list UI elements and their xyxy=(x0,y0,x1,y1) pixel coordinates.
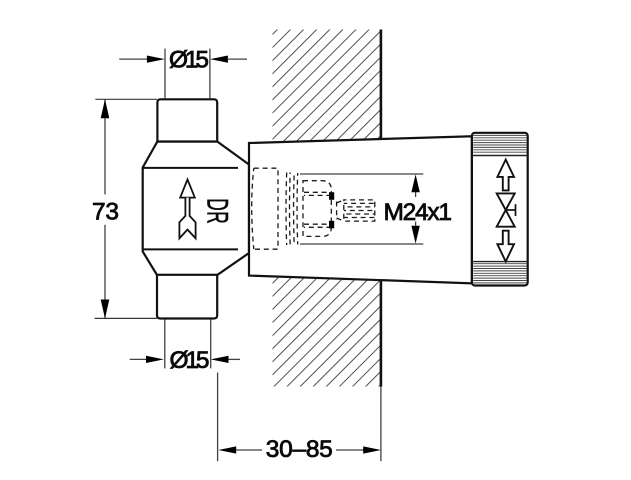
svg-text:73: 73 xyxy=(92,198,119,225)
svg-text:M24x1: M24x1 xyxy=(384,199,453,226)
svg-text:Ø15: Ø15 xyxy=(170,347,210,374)
svg-text:DR: DR xyxy=(200,198,233,224)
svg-text:Ø15: Ø15 xyxy=(169,47,209,74)
svg-text:30–85: 30–85 xyxy=(266,436,333,463)
